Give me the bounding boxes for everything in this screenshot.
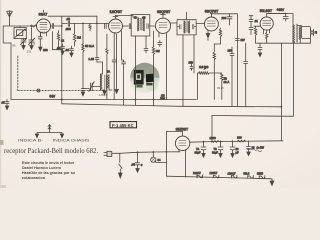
wire: left drop from rail [3,26,11,43]
resistor R12 (filter) [238,140,246,142]
capacitor C27 .05 + ground [136,152,140,172]
capacitor C4 (plate coupling .05) [51,24,62,29]
wire: osc grid vertical x96.9 [96,16,98,56]
svg-text:μF: μF [236,150,239,154]
svg-text:12SA7: 12SA7 [193,171,201,175]
svg-text:receptor Packard-Bell modelo 6: receptor Packard-Bell modelo 682. [4,148,98,155]
svg-text:44: 44 [157,158,161,162]
svg-text:12K7GT: 12K7GT [110,10,123,14]
resistor R10 (V5 cathode) [266,30,268,43]
legend symbol [35,125,63,138]
wire: V5 grid [254,25,260,27]
credit text block [22,161,76,180]
resistor R2 (V1 bias) [57,31,59,50]
capacitor C7 (osc) [95,56,102,74]
wire: IF2 to V3 grid [150,25,155,27]
svg-text:INDICA CHASIS: INDICA CHASIS [53,138,90,143]
tube V3 6SQ7 [155,14,170,100]
ground (V4 cathode) [206,34,210,41]
svg-text:12SK7: 12SK7 [210,171,218,175]
wire: x245 vertical [245,43,247,106]
tube V2 12SK7 [105,16,123,49]
svg-text:INDICA B-: INDICA B- [18,138,44,143]
svg-text:.08: .08 [65,48,69,52]
resistor R3 5M [73,23,75,46]
resistor R4 50M [82,23,84,88]
capacitor C26 + ground [247,141,251,156]
heater string line [167,176,273,181]
IF transformer T2 box [131,15,150,37]
svg-text:1000: 1000 [210,136,217,140]
rail A (B- 54V) [11,99,196,101]
capacitor C15 200mmF [227,14,232,25]
wire: y115 line [212,43,294,116]
output transformer T4 [293,22,311,43]
ground (osc coil) [103,90,106,95]
variable capacitor C2 (tuning) [29,26,35,49]
svg-text:.05: .05 [66,17,70,21]
wire: antenna rail to tube grid [3,25,36,27]
resistor R8 10K [214,73,223,100]
wire: B- bus left vertical [10,43,12,100]
rectifier tube V6 35Z5GT [175,131,189,177]
wire: B+ cathode line [190,141,283,142]
tube V4 6SQ7 [204,14,218,34]
svg-text:50L6: 50L6 [244,172,250,176]
pilot lamp PL1 [151,152,167,162]
wire: rectifier B line vertical x212 [211,116,213,142]
rail B [62,104,282,107]
stamp (circular watermark) [130,63,159,93]
wire: T3 to V4 grid [196,23,204,25]
electrolytic C25 [230,141,235,157]
wire: V4 plate top rail [211,13,237,15]
svg-text:HaraOlle de las gracias por su: HaraOlle de las gracias por su [22,171,76,175]
capacitor C30 + arrow (x83 bottom) [81,89,84,96]
filament F4 [248,176,254,179]
resistor R6 2M (diode load) [152,31,154,106]
capacitor C31 + ground (V1 cathode) [38,33,42,51]
capacitor C13 [158,41,162,47]
capacitor C16 on x237 [235,39,239,41]
variable capacitor C1 (tuning) [21,38,27,49]
left scan edge [0,0,1,188]
capacitor C20 (coupling pair) [249,16,253,35]
wire: x237 vertical [236,14,238,107]
svg-text:50L6GT: 50L6GT [260,9,272,13]
paper background [0,0,320,188]
trimmer capacitor C8 [83,82,100,92]
svg-text:FI: FI [315,30,318,34]
speaker SP1 (field coil box) [297,26,313,39]
wire + label (1 ohm 5W) [247,148,255,150]
svg-text:.05: .05 [1,100,5,104]
antenna AN1 [7,11,13,26]
wire: rectifier plate loop [167,131,183,176]
filament F5 [259,176,265,179]
capacitor C18 (pot left) [190,64,193,71]
junction symbol on dashed line [37,89,40,92]
svg-text:.01: .01 [254,19,258,23]
svg-text:5M: 5M [77,36,82,40]
svg-text:200: 200 [222,16,227,20]
electrolytic C24 [218,142,223,158]
svg-text:F-1 455 KC: F-1 455 KC [112,123,134,128]
svg-text:.02: .02 [57,46,61,50]
capacitor C11 (IF2 input) [123,24,132,29]
svg-text:+90V: +90V [277,8,285,12]
svg-text:54V: 54V [50,95,57,99]
svg-text:.05: .05 [131,163,135,167]
edge mark left [0,140,4,145]
svg-text:a 50L6: a 50L6 [99,93,107,97]
svg-text:250: 250 [189,61,194,65]
filament F2 [213,175,219,178]
electrolytic C22 [267,14,293,23]
svg-text:1M 500: 1M 500 [199,65,209,69]
capacitor C29 + ground [70,46,74,57]
AC line wire [112,152,180,154]
filament F3 [231,175,237,178]
volume control P1 [198,67,215,75]
svg-text:1W: 1W [240,38,245,42]
svg-text:30μF: 30μF [195,150,201,154]
svg-text:6SQ7GT: 6SQ7GT [157,10,170,14]
svg-text:4B: 4B [134,16,137,20]
svg-text:6SQ7GT: 6SQ7GT [205,10,218,14]
svg-text:50 M.A: 50 M.A [85,44,94,48]
capacitor C12 [144,47,148,53]
capacitor C6 .02 to ground [61,44,65,54]
svg-text:12SQ7: 12SQ7 [228,171,237,175]
svg-text:30μF: 30μF [212,150,218,154]
power plug P2 [104,151,112,156]
svg-text:250: 250 [228,49,233,53]
svg-text:39 70: 39 70 [217,86,224,90]
svg-text:1.25: 1.25 [89,57,95,61]
capacitor C28 on x245 [244,62,248,66]
svg-text:1a 5W: 1a 5W [257,146,265,150]
resistor R11 (filter) [211,141,219,143]
ground (heater end) [270,181,274,185]
resistor R13 (V4 cathode) [214,28,221,44]
wire: V1 plate riser to top rail [48,16,97,26]
switch S1 + chassis arrow [119,153,123,178]
svg-text:Este circuito le envio el lect: Este circuito le envio el lector [22,161,75,165]
svg-text:2M: 2M [156,49,161,53]
filament F1 [196,175,203,178]
oscillator coil T1 5A [101,74,113,90]
tube V1 6SA7 [31,10,51,36]
capacitor C10 [122,44,126,105]
capacitor C5 (.05 series) [62,21,109,26]
dashed chassis line [18,56,105,91]
wire: V2 plate to IF2 [116,16,134,18]
svg-text:½W: ½W [160,97,165,101]
tube V5 50L6GT [260,14,286,35]
wire: T3 right lead down to volume pot [193,35,195,73]
svg-text:100: 100 [237,135,242,139]
capacitor C19 (rail A bypass) [5,100,9,110]
resistor R9 (grid leak) [254,26,256,43]
wire: screen feed vertical x281 [280,43,282,141]
electrolytic C23 7A 30MF [201,142,206,158]
F-1 455 KC box [110,122,137,128]
wire: V2 screen drop [116,34,118,90]
svg-text:colaboracion: colaboracion [22,176,46,180]
svg-text:426: 426 [31,42,36,46]
resistor R14 (small, x90) [89,23,91,31]
loop antenna box L1 [14,26,26,39]
wire: T3 left lead down to rail B [182,35,184,107]
wire: AVC vertical x61 [61,26,63,104]
wire: pot to rail A [197,73,199,100]
svg-text:233: 233 [43,48,48,52]
capacitor C21 + ground (cathode bypass) [258,43,262,56]
svg-text:10.A: 10.A [224,80,230,84]
capacitor C17 250mmF [230,47,234,107]
svg-text:6SA7: 6SA7 [39,13,48,17]
capacitor C9 (V2 cathode bypass) [112,47,116,100]
svg-text:.058: .058 [65,27,71,31]
wires: IF2 bottom leads [135,36,137,105]
svg-text:Daniel Horacio Lucero: Daniel Horacio Lucero [22,166,62,170]
svg-text:.233: .233 [26,50,32,54]
resistor R7 (diode load) [213,44,215,100]
svg-text:4B: 4B [142,16,145,20]
tube V1 pin loops [41,32,47,33]
svg-text:35Z5: 35Z5 [257,172,263,176]
ground (x116) [115,90,118,94]
IF transformer T3 [171,12,197,35]
wire: V1 pin to cathode bus [53,32,62,50]
wire: cathode bottom rail [256,42,300,44]
edge mark bottom-left corner [0,185,6,188]
resistor R5 (V2 cathode) [106,49,108,100]
